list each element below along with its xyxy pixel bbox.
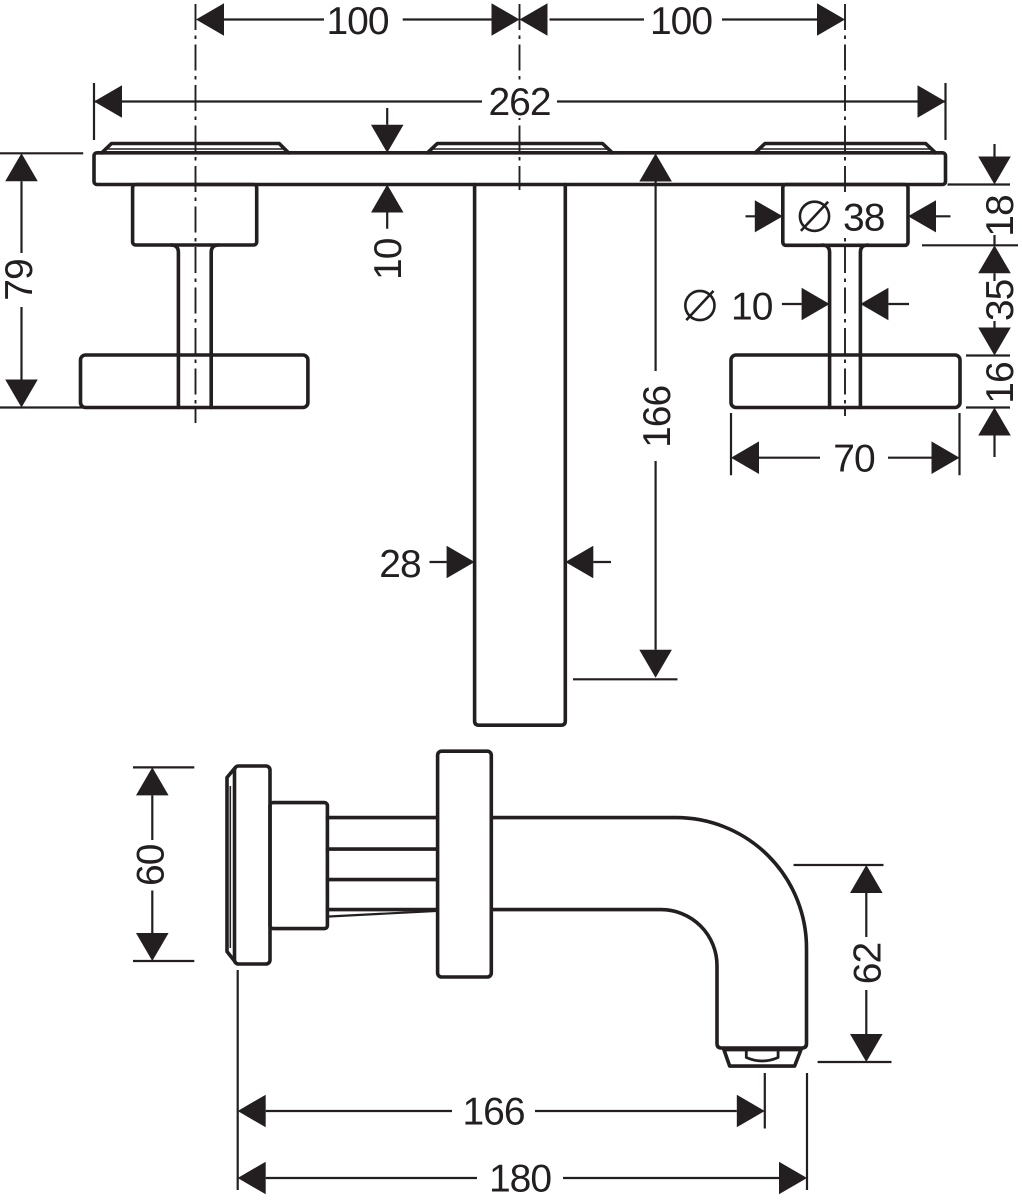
svg-text:60: 60	[130, 844, 173, 886]
svg-text:70: 70	[833, 438, 875, 481]
svg-text:180: 180	[489, 1158, 551, 1200]
svg-text:35: 35	[979, 279, 1022, 321]
svg-text:16: 16	[979, 362, 1022, 403]
svg-text:100: 100	[326, 0, 388, 43]
svg-text:28: 28	[379, 543, 420, 586]
svg-text:79: 79	[0, 259, 41, 300]
svg-text:62: 62	[846, 943, 889, 984]
svg-text:262: 262	[488, 81, 550, 124]
svg-text:10: 10	[731, 286, 773, 329]
svg-text:166: 166	[462, 1091, 524, 1134]
svg-text:166: 166	[636, 386, 679, 448]
svg-text:100: 100	[650, 0, 712, 43]
svg-text:18: 18	[979, 195, 1022, 236]
svg-text:10: 10	[367, 238, 410, 280]
svg-text:38: 38	[843, 197, 884, 240]
